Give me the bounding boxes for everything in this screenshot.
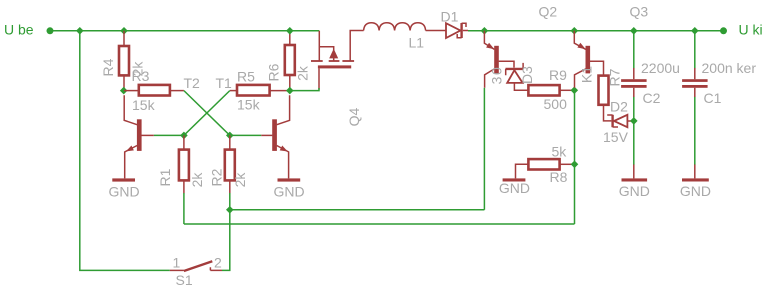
svg-text:GND: GND [499, 180, 530, 196]
wire R1 bottom to long net [183, 193, 185, 224]
junction rail at C1 [691, 27, 699, 35]
resistor R2 [225, 135, 235, 193]
svg-text:S1: S1 [176, 272, 193, 288]
junction rail at Q3 emitter [571, 27, 579, 35]
label R3 name [132, 68, 150, 84]
svg-text:GND: GND [680, 183, 711, 199]
resistor R5 [230, 85, 290, 96]
ground GND under T1 [273, 178, 304, 199]
ground GND under T2 [108, 178, 139, 199]
wire T1 base net [230, 134, 261, 136]
capacitor C2 [621, 68, 647, 97]
node pin dot U be [47, 27, 54, 34]
capacitor C1 [682, 68, 708, 97]
junction T1 base / R2 top [226, 132, 234, 140]
resistor R3 [124, 85, 184, 96]
zener D2 [607, 115, 634, 127]
svg-text:5k: 5k [552, 144, 568, 160]
label Q4 name [346, 107, 362, 126]
label R2 name [209, 168, 225, 186]
label C1 value 200n ker [702, 60, 757, 76]
label R8 name [550, 169, 568, 185]
resistor R9 [528, 85, 573, 95]
svg-text:200n ker: 200n ker [702, 60, 757, 76]
label R3 value 15k [132, 97, 156, 113]
svg-text:2k: 2k [232, 172, 248, 188]
svg-text:R1: R1 [157, 168, 173, 186]
svg-text:Q3: Q3 [630, 4, 649, 20]
svg-text:U ki: U ki [739, 22, 763, 38]
label T1 [216, 75, 233, 91]
resistor R8 [516, 159, 574, 178]
svg-text:15V: 15V [603, 129, 629, 145]
label D2 name [610, 99, 628, 115]
label S1 pin 1 [173, 255, 181, 271]
svg-text:2: 2 [214, 255, 222, 271]
svg-text:R2: R2 [209, 168, 225, 186]
mosfet Q4 [311, 31, 364, 90]
svg-text:2200u: 2200u [641, 60, 680, 76]
svg-text:2k: 2k [189, 172, 205, 188]
label Q3 value fragment [579, 66, 595, 83]
label S1 name [176, 272, 193, 288]
label Q3 name [630, 4, 649, 20]
svg-text:R8: R8 [550, 169, 568, 185]
svg-text:R7: R7 [607, 68, 623, 86]
junction R2 net / mid net [226, 206, 234, 214]
svg-text:C2: C2 [643, 90, 661, 106]
svg-text:R6: R6 [265, 63, 281, 81]
ground GND under C1 [680, 165, 711, 200]
junction top rail at R6 [286, 27, 294, 35]
wire long bottom net to Q3 collector column [184, 223, 575, 225]
wire T2 base net [154, 134, 184, 136]
node U be label [4, 22, 34, 38]
svg-text:GND: GND [273, 184, 304, 200]
svg-text:R5: R5 [237, 69, 255, 85]
svg-text:L1: L1 [409, 35, 425, 51]
junction R6 bottom / R5 right / gate [286, 87, 294, 95]
resistor R7 [599, 76, 612, 121]
transistor T1 [261, 95, 289, 178]
resistor R4 [119, 31, 129, 91]
label R1 name [157, 168, 173, 186]
svg-text:C1: C1 [704, 90, 722, 106]
wire C2 column [633, 31, 635, 165]
label Q2 name [539, 4, 558, 20]
label D1 name [441, 8, 459, 24]
junction top rail at x80 [76, 27, 84, 35]
label D2 value 15V [603, 129, 629, 145]
label T2 [184, 75, 201, 91]
svg-text:15k: 15k [237, 97, 261, 113]
svg-text:30: 30 [489, 66, 505, 85]
transistor Q3 [574, 31, 603, 88]
label R6 value 2k [295, 65, 311, 81]
switch S1 [170, 261, 222, 271]
svg-text:R3: R3 [132, 68, 150, 84]
label R6 name [265, 63, 281, 81]
label R5 name [237, 69, 255, 85]
svg-text:R4: R4 [100, 58, 116, 76]
wire output rail after D1 [468, 30, 724, 32]
resistor R1 [179, 135, 189, 193]
label C2 value 2200u [641, 60, 680, 76]
svg-text:Q4: Q4 [346, 107, 362, 126]
svg-text:T1: T1 [216, 75, 233, 91]
svg-text:D1: D1 [441, 8, 459, 24]
label C1 name [704, 90, 722, 106]
label R2 value 2k [232, 172, 248, 188]
label R4 name [100, 58, 116, 76]
junction rail at C2 [630, 27, 638, 35]
ground GND under C2 [619, 165, 650, 200]
svg-text:1: 1 [173, 255, 181, 271]
wire C1 column [694, 31, 696, 165]
svg-text:GND: GND [619, 183, 650, 199]
junction top rail at R4 [120, 27, 128, 35]
transistor T2 [124, 95, 154, 178]
node pin dot U ki [720, 27, 727, 34]
junction at R4 bottom / R3 left [120, 87, 128, 95]
wire Q3 collector column down [574, 88, 576, 224]
zener D3 [506, 63, 529, 90]
wire Q2 collector column [483, 88, 485, 210]
svg-text:15k: 15k [132, 97, 156, 113]
junction D2 anode / C2 column [630, 117, 638, 125]
label R1 value 2k [189, 172, 205, 188]
junction rail at Q2 emitter [481, 27, 489, 35]
svg-text:D3: D3 [519, 66, 535, 84]
junction R8 right / Q3 collector column [571, 161, 579, 169]
svg-text:U be: U be [4, 22, 34, 38]
svg-text:K1: K1 [579, 66, 595, 83]
diode D1 schottky [426, 23, 468, 38]
label R5 value 15k [237, 97, 261, 113]
svg-text:Q2: Q2 [539, 4, 558, 20]
label L1 name [409, 35, 425, 51]
label R4 value 2k [130, 61, 146, 77]
label R9 value 500 [544, 96, 568, 112]
label S1 pin 2 [214, 255, 222, 271]
wire cross-couple diagonal from R3 to T1 base [184, 91, 230, 136]
wire top rail from U be to Q4 source [50, 30, 319, 32]
svg-text:500: 500 [544, 96, 568, 112]
wire branch down to switch S1 [80, 31, 170, 271]
svg-text:R9: R9 [549, 67, 567, 83]
svg-text:D2: D2 [610, 99, 628, 115]
wire R2 bottom down to S1 [222, 193, 230, 270]
wire gate net from R6 junction [290, 88, 319, 91]
label R9 name [549, 67, 567, 83]
junction R9 right / Q3 collector [571, 87, 579, 95]
inductor L1 [364, 23, 426, 31]
wire mid net to Q2 collector column [230, 209, 485, 211]
svg-text:T2: T2 [184, 75, 201, 91]
label C2 name [643, 90, 661, 106]
junction T2 base / R1 top [180, 132, 188, 140]
label R7 name [607, 68, 623, 86]
transistor Q2 [484, 31, 514, 88]
wire cross-couple diagonal from R5 to T2 base [184, 91, 230, 136]
node U ki label [739, 22, 763, 38]
ground GND under R8 [499, 178, 530, 196]
label Q2 value fragment [489, 66, 505, 85]
resistor R6 [285, 31, 295, 91]
svg-text:2k: 2k [295, 65, 311, 81]
svg-text:GND: GND [108, 184, 139, 200]
label D3 name [519, 66, 535, 84]
label R8 value 5k [552, 144, 568, 160]
